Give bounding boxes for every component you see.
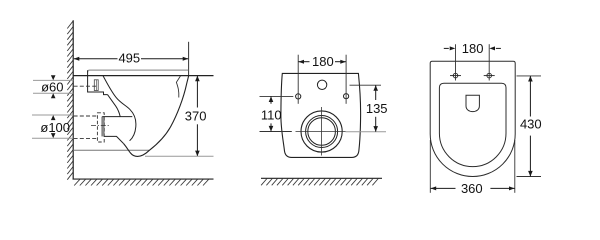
svg-text:180: 180 xyxy=(312,54,334,69)
outlet crosshair xyxy=(296,131,346,133)
wall xyxy=(72,20,74,179)
bowl inner back wall curve xyxy=(103,76,136,141)
svg-text:110: 110 xyxy=(261,107,282,122)
dimension 495 xyxy=(74,50,189,65)
dimension 110 xyxy=(260,96,294,131)
ground line (middle) xyxy=(261,177,382,179)
svg-text:495: 495 xyxy=(118,50,140,65)
inlet spud xyxy=(94,80,98,91)
wall hatching xyxy=(67,21,73,180)
dimension 430 xyxy=(517,76,542,177)
flush button shape xyxy=(466,95,479,111)
dimension 370 xyxy=(185,76,207,157)
svg-text:ø60: ø60 xyxy=(41,79,63,94)
dimension 180 (right view) xyxy=(444,41,501,56)
back inner rim zigzag xyxy=(176,76,180,98)
rear block bottom line xyxy=(73,149,149,151)
water inlet circle xyxy=(317,80,326,89)
body outline xyxy=(281,73,361,157)
inlet centerline (dashed) xyxy=(74,85,98,87)
outlet centerline (dash-dot) xyxy=(91,124,110,126)
hidden outlet pipe (dashed rect) xyxy=(97,113,104,142)
extension line right of 495 xyxy=(188,42,190,76)
ground hatching (middle) xyxy=(261,179,378,186)
inlet box outline xyxy=(88,70,108,94)
svg-text:180: 180 xyxy=(462,41,484,56)
dimension 360 xyxy=(430,140,515,196)
outer body xyxy=(430,61,515,176)
floor line xyxy=(73,178,214,180)
extension line bottom of 370 xyxy=(145,155,214,157)
bowl underside and outer back sweep xyxy=(124,76,189,157)
seat outline xyxy=(439,83,506,166)
hole center verticals / 180 extension lines xyxy=(297,55,299,104)
dimension ø100 xyxy=(32,115,73,138)
fixing hole right (crosshair) xyxy=(484,73,495,78)
ceramic rim top line xyxy=(73,75,213,77)
toilet seat lid (top line) xyxy=(88,70,189,72)
fixing hole left (crosshair) xyxy=(450,73,461,78)
dimension ø60 xyxy=(33,75,73,98)
outer shell diagonal xyxy=(108,95,121,117)
svg-text:370: 370 xyxy=(185,109,207,124)
svg-text:ø100: ø100 xyxy=(40,120,70,135)
outlet boss xyxy=(102,116,132,118)
svg-text:135: 135 xyxy=(366,101,388,116)
hole extension verticals xyxy=(455,44,457,80)
mounting hole left xyxy=(296,94,301,99)
svg-text:360: 360 xyxy=(461,181,483,196)
mounting hole right xyxy=(344,94,349,99)
svg-text:430: 430 xyxy=(520,117,542,132)
dimension 135 xyxy=(346,85,388,132)
dimension 180 (middle) xyxy=(298,54,346,69)
outlet pipe circles xyxy=(301,111,342,152)
floor hatching xyxy=(74,179,209,185)
